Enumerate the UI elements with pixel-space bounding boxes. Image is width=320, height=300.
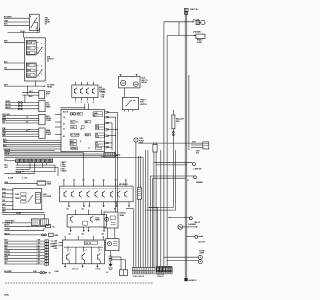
svg-text:B+: B+ [76,122,78,124]
label: coil pack input wires [54,241,58,250]
wire D2 with inline connector [5,104,39,106]
label: connector block D [46,102,51,108]
label: idle air control [141,78,148,84]
ECU inner box right 1 [93,112,103,118]
wire corner return h1 [147,206,173,209]
wire crossover C to D [24,95,26,102]
battery junction connector [184,8,188,14]
driver out pin 2 [82,202,85,211]
ECU pin stub left 2 [55,121,61,123]
wire row below strip 3 [16,163,30,170]
driver out pin 1 [67,202,70,211]
wire to cluster feed [4,163,34,175]
svg-text:SPEED: SPEED [71,148,77,150]
svg-text:CYL 4: CYL 4 [96,268,101,271]
ECU pin stub left 3 [55,126,61,128]
wire ECU top feed [61,106,86,109]
injector coil 2 [91,216,94,223]
body connector row pin 4 [166,266,169,271]
svg-text:1: 1 [70,250,71,252]
driver out pin 3b [103,202,105,208]
label: courtesy note [199,251,205,255]
svg-text:C 1.5G: C 1.5G [22,178,28,180]
bus wire H5 [4,156,143,158]
wire into switch a [4,41,25,43]
wire switch output down [34,81,36,86]
injector group box [67,215,106,227]
wire branch horn relay [167,35,196,36]
wire coil left stub 2 [59,244,63,246]
body connector row pin 3 [163,266,166,271]
ECU inner boxes ABS [70,140,76,147]
wire to stabilizer [4,182,37,184]
wire bundle corner extra [126,209,134,268]
wire to connector J1 [2,222,31,224]
svg-text:CLUSTER: CLUSTER [43,196,52,198]
wire lower branch [168,217,192,220]
body connector row pin 1 [156,266,159,271]
connector block F [39,128,45,139]
wire 14ga feed [8,32,40,34]
transistor QR8 [118,191,121,198]
coil transistor 3 [98,253,101,264]
svg-text:CONN: CONN [46,120,52,122]
diagnostic socket box [104,152,115,157]
connector block E [39,114,45,125]
svg-text:GRN/Y: GRN/Y [5,101,11,103]
bulkhead strip group 1 [133,268,156,274]
connector J1 [31,219,39,226]
svg-text:B 2.5R: B 2.5R [8,178,14,180]
label: ECU legend [61,161,68,173]
ECU inner extra row a [85,120,91,123]
injector out pin 2 [82,227,85,235]
ladder wire K6 [4,254,44,256]
driver feed pin 7 [125,180,127,187]
ECU fuel injection control unit [61,110,105,152]
ladder wire K2 [4,242,44,244]
driver feed pin 3 [82,180,84,187]
label: wire codes row [8,178,28,180]
battery feed rail line 2 [186,12,188,279]
fuse box C [39,91,45,99]
svg-text:AC COMP: AC COMP [71,134,80,137]
svg-text:C101 C102 C3: C101 C102 C3 [133,276,144,278]
wire ignition feed bus [4,85,46,87]
transistor Q1 in module [74,88,77,94]
ladder wire K3 [4,245,44,247]
label: ignition module [99,87,106,93]
wire test connector down [135,142,137,267]
svg-text:RED/B: RED/B [16,172,22,174]
label: instrument cluster [43,194,52,198]
svg-text:VIO/W: VIO/W [16,213,21,215]
svg-text:RED/W: RED/W [5,107,11,109]
wire strip drop 5 [46,163,48,166]
driver feed pin 4 [92,180,94,187]
module inner rail [61,188,133,190]
wire rail vertical drop a [163,22,165,267]
connector J2 [41,219,49,226]
wire branch cig lighter [186,235,203,238]
transistor QR9 [125,191,128,198]
wire rail vertical drop d [149,208,158,267]
svg-text:62044: 62044 [4,294,9,297]
injector out pin 4 [102,227,105,235]
wire to relay module 2 [191,144,203,146]
label: fuse box C [46,91,51,97]
wire F1 with splice arrow [2,128,39,130]
wire strip drop 1 [16,163,18,166]
injector feed pin a [74,210,77,215]
ECU inner boxes right 3 [95,133,104,138]
vertical harness b [115,117,117,212]
label: terminal column dest [51,241,57,248]
label: voltage stabilizer [47,182,52,186]
label: horn relay [197,39,203,44]
fuel pump check connector [134,138,138,142]
svg-text:8: 8 [80,141,81,143]
output driver module box [60,186,133,202]
svg-text:1: 1 [75,102,76,104]
wire corner return h2 [145,209,175,212]
ignition starter relay K1 [29,14,39,30]
terminal column T1-T9 [45,240,49,265]
svg-text:G104: G104 [54,270,58,273]
bulkhead strip group 2 [157,268,173,274]
bus wire H2 with drop [4,151,83,180]
svg-text:VALVE: VALVE [141,81,147,84]
injector coil 1 [71,216,74,223]
coil pack feed pin d [102,236,105,240]
label: connector block F [46,129,52,136]
wire row below strip 2 [4,167,58,176]
bus wire G5 to ECU [3,148,61,150]
inline connector Y on harness [137,188,141,199]
ladder wire K1 [4,240,44,242]
transistor Q4 in module [92,88,95,94]
label: injector group [95,218,101,222]
ballast resistor R1 [172,110,175,208]
ECU inner box CMP [71,126,84,129]
svg-text:S1: S1 [47,61,49,63]
svg-text:45: 45 [63,135,65,138]
idle air control valve [119,74,140,88]
inline resistor marks [109,256,112,264]
instrument cluster box [13,189,42,210]
ECU inner box AC [71,133,80,136]
label: relay K1 name [45,18,51,26]
svg-text:17: 17 [88,148,90,150]
wire harness v4 [142,158,144,268]
label: heater relay note [196,150,200,154]
courtesy lamp sockets [198,255,202,263]
svg-text:JUNCT B+: JUNCT B+ [190,9,198,11]
svg-text:BLU/W: BLU/W [5,104,11,106]
driver feed pin 5 [103,180,105,187]
knock sensor module box [104,212,118,228]
svg-text:CIG LTR: CIG LTR [198,242,205,244]
wire cluster 1 [2,188,13,190]
svg-text:0.5: 0.5 [26,121,28,123]
wire relay output down [36,22,38,32]
ECU right pin row 2 [105,116,116,118]
transistor QR5 [95,191,98,198]
svg-text:A3: A3 [114,208,116,211]
svg-text:1.5: 1.5 [26,117,28,119]
label: throttle switch [140,99,147,105]
wire rail vertical drop c [160,150,162,266]
driver feed pin 6 [115,180,117,187]
wire module link b [114,228,116,239]
wire rail vertical drop b [166,36,168,267]
label: tps wires [101,92,107,98]
ECU inner extra row b [85,133,91,136]
wire to relay module 3 [191,146,203,148]
ECU right pin row 7 [105,146,112,148]
ground shield line [5,282,153,284]
wire corner c3 [150,176,192,268]
wire E4 [2,122,39,124]
svg-text:COIL PK: COIL PK [85,243,92,245]
terminal circle top right 1 [191,163,195,166]
label: coil outputs [72,268,100,271]
wire F3 [2,133,39,135]
ladder wire K4 [4,248,44,250]
connector block D [39,101,45,112]
svg-text:C6 C7 C8: C6 C7 C8 [157,274,164,276]
wire to relay pin 30 [4,17,29,19]
ECU inner extra text rows [63,116,90,150]
wire cluster 2 [2,192,13,194]
ECU inner relay symbol 1 [70,113,82,116]
svg-text:5 SENS: 5 SENS [61,171,68,173]
bus wire G3 to ECU [3,144,61,146]
svg-text:CYL 1-3: CYL 1-3 [72,269,78,271]
wire D1 with inline connector [5,101,39,103]
svg-text:YEL/B: YEL/B [4,153,10,155]
ECU pin stub left 4 [55,134,61,136]
svg-text:2: 2 [86,250,87,252]
svg-text:INJ: INJ [85,121,88,123]
small connector pair [120,270,128,276]
ECU right pin row 4 [105,129,118,131]
transistor QR3 [79,191,82,198]
driver feed pin 1 [63,180,65,187]
svg-text:TACH SIG: TACH SIG [2,113,10,116]
svg-text:31: 31 [63,129,65,131]
svg-text:BLK/Y: BLK/Y [4,225,10,227]
coil pack inner rail [64,247,103,264]
throttle position switch [122,97,138,111]
wire branch link stub [178,22,180,36]
bus wire G2 to ECU [3,142,61,144]
wire through strip [4,160,15,162]
injector out pin 3 [88,227,90,232]
wire rail vertical drop e [175,150,177,210]
label: bulkhead connector [5,220,15,225]
wire L lone feed [4,271,40,273]
wire module to ECU b [88,104,90,110]
transistor QR1 [64,191,67,198]
svg-text:A/C 15A: A/C 15A [193,18,200,21]
ECU pin stub left 1 [55,113,61,115]
label: fuel pump conn [139,138,145,144]
coil pack feed pin c [92,236,95,240]
coil pack feed pin b [77,236,80,240]
wire harness v3 [140,156,142,268]
ignition switch S1 [25,38,46,81]
relay box BB [153,142,157,152]
rail end terminal [184,278,187,281]
wire below cluster 1 [2,211,45,213]
svg-text:A2: A2 [82,208,84,211]
wire corner c1 [154,152,192,268]
driver out pin 4 [114,202,117,211]
wire D3 with inline connector [5,107,39,109]
label: ballast resistor [176,118,185,123]
ignition coil pack box [62,240,104,264]
voltage stabilizer box [37,181,46,185]
coil pack label box [84,241,97,245]
ladder wire K7 [4,257,44,259]
svg-text:ALWAYS C: ALWAYS C [188,279,197,282]
transistor QR7 [111,191,114,198]
wire cluster 6 [2,208,13,210]
ECU inner boxes right 4 [95,142,104,148]
driver out pin 3 [88,202,90,208]
vertical harness a [111,123,113,150]
wire corner c2 [156,152,187,268]
wire idle valve to throttle sw [123,88,125,97]
transistor Q3 in module [86,88,89,94]
coil out pin 2 [82,264,84,268]
coil transistor 1 [67,253,70,264]
ECU inner boxes right 2 [95,125,104,131]
ladder wire K8 [4,260,44,262]
sensor amplifier box [106,239,120,251]
injector feed pin c [100,210,103,215]
wire harness v2 [137,156,139,268]
inline connector on wire L [40,272,51,275]
wire amplifier to ground [110,251,112,256]
AC compressor clutch coils [196,20,205,24]
vertical harness c [117,112,119,212]
wire to relay module 1 [138,142,203,144]
svg-text:3: 3 [87,102,88,104]
ECU right pin row 1 [105,112,118,114]
svg-text:A1: A1 [67,208,69,211]
svg-text:FEED: FEED [46,106,51,108]
wire branch to diode block [27,86,29,95]
wire to relay pin 85 [4,24,29,26]
wire to socket 1 [164,256,199,259]
ladder wire K5 [4,251,44,253]
ECU right pin row 6 [105,142,113,144]
svg-text:WHT/B: WHT/B [4,251,10,253]
wire amp to connector a [110,257,121,270]
ignition power stage module U3 [72,82,98,97]
svg-text:4: 4 [93,101,94,104]
svg-text:LOCK: LOCK [27,43,33,45]
body connector row pin 5 [169,266,172,271]
bus wire H1 [4,149,55,151]
driver out pin 5 [128,202,130,208]
svg-text:G6: G6 [49,272,51,274]
wire cluster 4 [2,200,13,202]
battery feed rail line 1 [184,12,186,279]
wire E3 [2,120,39,122]
transistor QR2 [71,191,74,198]
label: knock sensor module [120,213,127,217]
svg-text:30A MAIN: 30A MAIN [193,30,201,33]
svg-text:12: 12 [80,129,82,131]
svg-text:MFI RELAY: MFI RELAY [119,183,129,186]
bus wire H3 with drop [4,153,116,155]
wire F4 [2,135,39,137]
svg-text:1.5W: 1.5W [37,251,41,253]
svg-text:22: 22 [63,124,65,126]
module pin stubs [75,98,94,104]
svg-text:RED/G: RED/G [4,233,10,235]
injector resistor box [83,221,88,225]
svg-text:BLK/RED: BLK/RED [4,271,12,273]
coil out pin 1 [64,264,66,268]
bus wire H4 [4,154,118,157]
ground G1 [108,264,113,270]
wire harness v5 [145,150,147,268]
transistor QR4 [87,191,90,198]
coil out pin 3 [96,264,98,268]
inline connector on resistor wire [173,131,175,135]
svg-text:30: 30 [36,28,38,30]
battery feed rail line 3 [188,75,190,150]
wire harness v6 [147,150,149,268]
svg-text:LAMP SW: LAMP SW [194,167,202,170]
wire oil pressure feed [4,225,55,229]
wire temp sender [4,228,44,231]
svg-text:SWITCH: SWITCH [140,104,147,106]
svg-text:RED/W: RED/W [4,254,10,256]
wire to fuse box C pin1 [22,92,39,94]
wire corner c4 [153,178,186,268]
wire drop to connector [44,214,46,219]
wire into switch b [4,62,25,64]
coil transistor 2 [82,253,85,264]
svg-text:B1: B1 [69,233,71,235]
wire with splice arrow [15,171,55,172]
ECU inner box right 5 [95,147,101,149]
wire coil left stub 1 [59,241,63,243]
svg-text:GRN/B: GRN/B [4,229,10,231]
wire brake warning [4,233,59,237]
svg-text:BLK/WHT: BLK/WHT [4,17,13,19]
ECU right pin row 5 [105,135,116,137]
label: ignition switch [47,57,54,63]
wire module link a [106,228,108,239]
ladder wire K9 [4,262,44,264]
svg-text:2: 2 [81,102,82,104]
svg-text:K1: K1 [45,24,47,26]
svg-text:14 GA: 14 GA [20,30,26,33]
svg-text:ECU A: ECU A [63,111,69,114]
bus wire G4 to ECU [3,146,61,148]
wire cluster 3 [2,196,13,198]
injector feed pin b [87,210,90,215]
svg-text:CONN: CONN [46,134,52,136]
terminal strip row TS1 [16,159,53,163]
label: connector block E [46,116,52,122]
